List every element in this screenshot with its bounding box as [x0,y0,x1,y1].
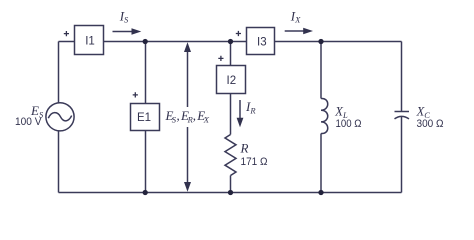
plus sign I1 [64,31,69,36]
node junction top E1 [143,39,148,44]
wire left vertical lower [58,131,60,193]
box E1 [131,104,160,131]
svg-text:I2: I2 [227,75,237,87]
wire right vertical lower [401,117,403,193]
wire top rail right segment [275,41,402,43]
svg-text:E1: E1 [137,112,151,124]
wire bottom rail [59,192,402,194]
wire resistor to bottom rail [230,176,232,193]
plus sign E1 [133,92,138,97]
svg-text:I1: I1 [85,36,95,48]
wire right vertical upper [401,42,403,112]
voltage double arrow ES ER EX [184,42,191,191]
wire I2 branch upper [230,42,232,66]
current arrow IX [285,28,313,35]
wire top rail middle segment [104,41,247,43]
box I1 [75,26,104,55]
wire XL branch lower [320,134,322,193]
wire top rail left segment [59,41,75,43]
svg-text:100 Ω: 100 Ω [336,118,362,130]
node junction bottom E1 [143,190,148,195]
wire left vertical upper [58,42,60,104]
current arrow IS [113,28,142,35]
svg-text:100 V: 100 V [15,116,42,128]
node junction bottom R [228,190,233,195]
AC source ES circle [46,103,74,131]
label ES ER EX [164,107,210,127]
svg-text:ES,ER,EX: ES,ER,EX [165,108,210,125]
svg-text:I3: I3 [257,37,267,49]
box I2 [217,66,246,94]
inductor XL coil [321,98,328,133]
node junction bottom XL [318,190,323,195]
current arrow IR [237,100,244,127]
plus sign I2 [218,56,223,61]
wire E1 branch upper [145,42,147,104]
node junction top I2 [228,39,233,44]
svg-text:R: R [240,141,249,156]
box I3 [247,28,275,55]
wire I2 branch to resistor [230,94,232,135]
svg-text:171 Ω: 171 Ω [241,156,268,168]
plus sign I3 [236,31,241,36]
resistor R zigzag [225,135,236,176]
capacitor XC plates [395,112,410,119]
wire E1 branch lower [145,131,147,193]
svg-text:300 Ω: 300 Ω [417,118,444,130]
node junction top XL [318,39,323,44]
wire XL branch upper [320,42,322,99]
